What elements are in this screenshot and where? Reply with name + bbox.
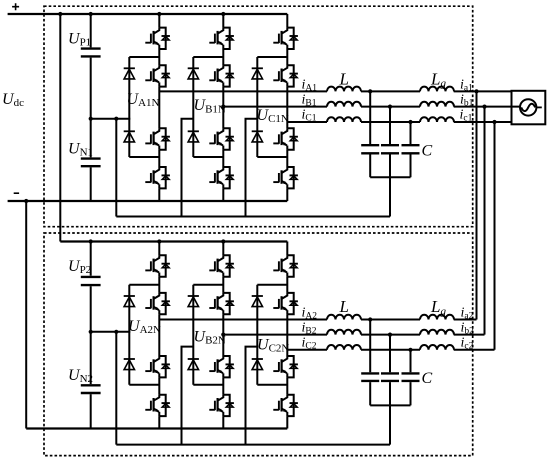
inductor L c2 [327,345,361,350]
wire neutral corner leg B inv1 [182,119,194,217]
svg-text:iC2: iC2 [302,336,317,352]
svg-text:ic1: ic1 [460,108,473,124]
wire neutral star line inv2 [116,444,390,446]
wire phase c2 line [287,349,494,351]
wire link a [476,91,478,319]
wire dc-link branch middle inv1 [90,58,92,158]
transistor Q4 leg C2 [273,395,298,416]
wire clamp branch C1 [257,57,287,157]
wire dc-link branch lower inv1 [90,167,92,201]
wire filter cap branch 1 inv2 [369,320,371,406]
clamp diode upper B1 [188,68,199,79]
svg-text:L: L [339,297,349,316]
transistor Q4 leg B1 [209,167,234,188]
node phase b1 tap [221,105,225,109]
transistor Q4 leg B2 [209,395,234,416]
wire grid source right stub [536,106,541,108]
grid source sine [521,104,535,111]
transistor Q4 leg A1 [145,167,170,188]
filter capacitor C3 inv1 [402,144,420,146]
svg-text:ib1: ib1 [460,93,474,109]
minus terminal [14,192,19,194]
transistor Q3 leg A1 [145,128,170,149]
wire leg A1 segments [158,14,160,201]
svg-text:UB1N: UB1N [194,97,226,115]
wire clamp branch B2 [193,285,223,385]
transistor Q1 leg B1 [209,28,234,49]
transistor Q4 leg C1 [273,167,298,188]
capacitor UP2 [81,276,101,278]
svg-text:UA2N: UA2N [128,318,161,336]
wire filter star drop inv1 [389,177,391,216]
transistor Q1 leg A1 [145,28,170,49]
wire neutral star line inv1 [116,216,390,218]
grid source box [512,91,546,125]
clamp diode lower B1 [188,131,199,142]
wire filter cap branch 3 inv2 [410,350,412,406]
svg-text:iA2: iA2 [302,306,318,322]
svg-text:ia2: ia2 [461,306,474,322]
inductor Lg b2 [420,330,454,335]
wire filter cap branch 2 inv1 [389,107,391,178]
wire neutral tap inv2 [91,331,131,333]
inductor L c1 [327,117,361,122]
wire phase b1 line [223,106,520,108]
wire dc-link branch upper inv1 [90,14,92,47]
svg-text:L: L [339,69,349,88]
svg-text:iB1: iB1 [302,93,317,109]
svg-text:UC1N: UC1N [257,107,289,125]
transistor Q2 leg A1 [145,65,170,86]
node DC- junction [24,199,28,203]
inductor L a2 [327,315,361,320]
filter capacitor C1 inv1 [361,144,379,146]
node neutral drop junction inv2 [114,330,118,334]
svg-text:UN1: UN1 [68,140,93,158]
wire phase a2 line [159,319,476,321]
wire DC+ rail inverter 2 [60,240,287,242]
transistor Q3 leg C2 [273,356,298,377]
svg-text:UC2N: UC2N [257,337,289,355]
transistor Q3 leg A2 [145,356,170,377]
clamp diode lower C2 [252,359,263,370]
inductor L a1 [327,87,361,92]
node phase b2 tap [221,333,225,337]
wire filter cap branch 2 inv2 [389,335,391,406]
inductor Lg c2 [420,345,454,350]
clamp diode lower A2 [124,359,135,370]
svg-text:UP1: UP1 [68,30,91,48]
svg-text:iB2: iB2 [302,321,317,337]
node neutral point inv2 [89,330,93,334]
clamp diode upper B2 [188,296,199,307]
node link a top [474,89,478,93]
svg-text:Udc: Udc [2,91,24,109]
wire neutral corner leg C inv2 [246,347,258,445]
node leg B top junction inv1 [221,12,225,16]
capacitor UN2 [81,384,101,386]
filter capacitor C2 inv2 [381,372,399,374]
inductor Lg a2 [420,315,454,320]
wire filter star drop inv2 [389,405,391,444]
node filter cap tap 2 inv1 [388,105,392,109]
dashed enclosure inverter 2 [44,233,473,456]
transistor Q2 leg B1 [209,65,234,86]
wire neutral corner leg B inv2 [182,347,194,445]
clamp diode lower B2 [188,359,199,370]
svg-text:UB2N: UB2N [194,329,226,347]
clamp diode lower C1 [252,131,263,142]
inductor Lg c1 [420,117,454,122]
filter capacitor C2 inv1 [381,144,399,146]
transistor Q4 leg A2 [145,395,170,416]
wire leg A2 segments [158,242,160,429]
wire DC+ bus drop to inverter 2 [59,14,61,242]
transistor Q1 leg A2 [145,255,170,276]
filter capacitor C1 inv2 [361,372,379,374]
node leg A top junction inv1 [157,12,161,16]
clamp diode upper A1 [124,68,135,79]
svg-text:Lg: Lg [430,69,446,89]
wire phase a1 line [159,90,511,92]
wire dc-link branch lower inv2 [90,394,92,428]
node filter cap tap 1 inv1 [368,89,372,93]
transistor Q3 leg B1 [209,128,234,149]
wire DC- drop to inverter 2 [25,201,27,429]
wire leg C2 segments [286,242,288,429]
wire clamp branch B1 [193,57,223,157]
clamp diode upper A2 [124,296,135,307]
wire phase b2 line [223,334,484,336]
wire clamp branch A1 [129,57,159,157]
node cap branch junction top1 [89,12,93,16]
wire filter cap star tie inv2 [370,404,410,406]
dashed enclosure inverter 1 [44,6,473,227]
svg-text:ia1: ia1 [460,78,473,94]
wire clamp branch C2 [257,285,287,385]
svg-text:iC1: iC1 [302,108,317,124]
node link b top [482,105,486,109]
svg-text:Lg: Lg [430,297,446,317]
wire filter cap branch 3 inv1 [410,122,412,177]
clamp diode lower A1 [124,131,135,142]
transistor Q1 leg C1 [273,28,298,49]
node DC+ bus junction [58,12,62,16]
plus terminal [12,3,19,10]
transistor Q2 leg B2 [209,293,234,314]
wire phase c1 line [287,121,511,123]
svg-text:C: C [422,370,433,387]
node filter cap tap 2 inv2 [388,333,392,337]
wire leg B1 segments [222,14,224,201]
wire link c [494,122,496,350]
wire filter cap branch 1 inv1 [369,91,371,177]
node filter cap tap 3 inv2 [408,348,412,352]
wire dc-link branch upper inv2 [90,242,92,276]
inductor Lg b1 [420,102,454,107]
node link c top [492,120,496,124]
grid source circle [520,99,536,115]
wire leg B2 segments [222,242,224,429]
node neutral drop junction inv1 [114,117,118,121]
wire DC- rail [8,200,288,202]
wire DC+ rail inverter 1 [8,13,288,15]
capacitor UP1 [81,47,101,49]
wire neutral drop A inv1 [115,119,117,217]
node cap branch junction top2 [89,239,93,243]
wire clamp branch A2 [129,285,159,385]
wire neutral drop A inv2 [115,332,117,445]
node filter cap tap 3 inv1 [408,120,412,124]
clamp diode upper C1 [252,68,263,79]
inductor Lg a1 [420,87,454,92]
node filter cap tap 1 inv2 [368,317,372,321]
node neutral point inv1 [89,117,93,121]
svg-text:UN2: UN2 [68,367,93,385]
svg-text:ic2: ic2 [461,336,474,352]
filter capacitor C3 inv2 [402,372,420,374]
svg-text:UP2: UP2 [68,258,91,276]
transistor Q3 leg C1 [273,128,298,149]
wire neutral tap inv1 [91,118,131,120]
transistor Q3 leg B2 [209,356,234,377]
capacitor UN1 [81,157,101,159]
node leg B top junction inv2 [221,239,225,243]
clamp diode upper C2 [252,296,263,307]
wire leg C1 segments [286,14,288,201]
wire dc-link branch middle inv2 [90,286,92,384]
transistor Q1 leg B2 [209,255,234,276]
transistor Q2 leg A2 [145,293,170,314]
node leg A top junction inv2 [157,239,161,243]
svg-text:iA1: iA1 [302,78,318,94]
wire link b [484,107,486,335]
transistor Q2 leg C2 [273,293,298,314]
wire DC- rail inverter 2 [26,427,287,429]
transistor Q1 leg C2 [273,255,298,276]
wire filter cap star tie inv1 [370,176,410,178]
wire neutral corner leg C inv1 [246,119,258,217]
inductor L b1 [327,102,361,107]
transistor Q2 leg C1 [273,65,298,86]
svg-text:C: C [422,143,433,160]
inductor L b2 [327,330,361,335]
svg-text:UA1N: UA1N [127,91,160,109]
